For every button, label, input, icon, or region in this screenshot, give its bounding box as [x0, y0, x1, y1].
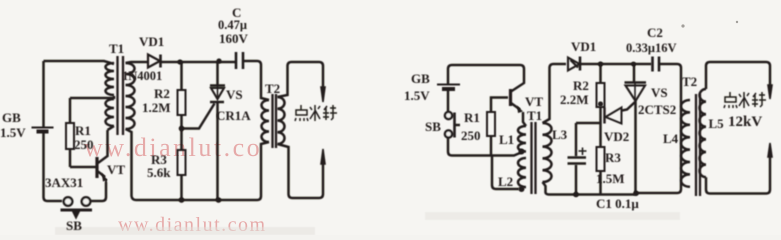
svg-text:12kV: 12kV [728, 114, 762, 130]
svg-text:R1: R1 [464, 110, 480, 125]
svg-text:GB: GB [2, 110, 21, 125]
svg-text:1.5V: 1.5V [0, 125, 26, 140]
svg-text:T2: T2 [682, 74, 697, 89]
svg-text:T1: T1 [109, 41, 124, 56]
svg-text:R2: R2 [154, 86, 170, 101]
svg-text:VT: VT [107, 162, 125, 177]
svg-text:250: 250 [461, 128, 481, 143]
svg-text:C1 0.1μ: C1 0.1μ [596, 196, 639, 211]
svg-text:0.33μ16V: 0.33μ16V [626, 41, 677, 55]
svg-text:0.47μ: 0.47μ [218, 18, 247, 32]
svg-text:1.5V: 1.5V [404, 88, 430, 103]
svg-text:2.2M: 2.2M [560, 92, 589, 107]
svg-text:L3: L3 [552, 127, 568, 142]
svg-text:VD2: VD2 [604, 129, 629, 144]
svg-text:VS: VS [651, 85, 668, 100]
svg-text:160V: 160V [219, 31, 249, 46]
svg-text:L4: L4 [663, 131, 679, 146]
svg-text:R1: R1 [75, 123, 91, 138]
svg-text:VS: VS [226, 87, 243, 102]
svg-text:L1: L1 [499, 132, 514, 147]
svg-text:SB: SB [66, 218, 82, 233]
svg-text:2CTS2: 2CTS2 [638, 102, 676, 117]
svg-text:VD1: VD1 [571, 39, 596, 54]
svg-text:GB: GB [411, 71, 430, 86]
svg-text:ww.dianlut.co: ww.dianlut.co [84, 133, 262, 162]
svg-text:3AX31: 3AX31 [45, 175, 83, 190]
svg-text:1.5M: 1.5M [596, 171, 625, 186]
svg-text:T2: T2 [265, 81, 280, 96]
svg-text:VT: VT [525, 94, 543, 109]
svg-text:SB: SB [425, 119, 441, 134]
svg-text:1N4001: 1N4001 [122, 69, 162, 83]
svg-text:R3: R3 [605, 150, 621, 165]
svg-text:VD1: VD1 [139, 34, 164, 49]
svg-text:L5: L5 [709, 116, 725, 131]
svg-text:250: 250 [74, 137, 94, 152]
svg-text:L2: L2 [498, 174, 513, 189]
svg-text:R2: R2 [573, 78, 589, 93]
svg-text:CR1A: CR1A [216, 108, 251, 123]
svg-text:1.2M: 1.2M [142, 100, 171, 115]
svg-text:C2: C2 [647, 25, 663, 40]
svg-text:5.6k: 5.6k [147, 165, 171, 180]
svg-text:T1: T1 [527, 108, 542, 123]
